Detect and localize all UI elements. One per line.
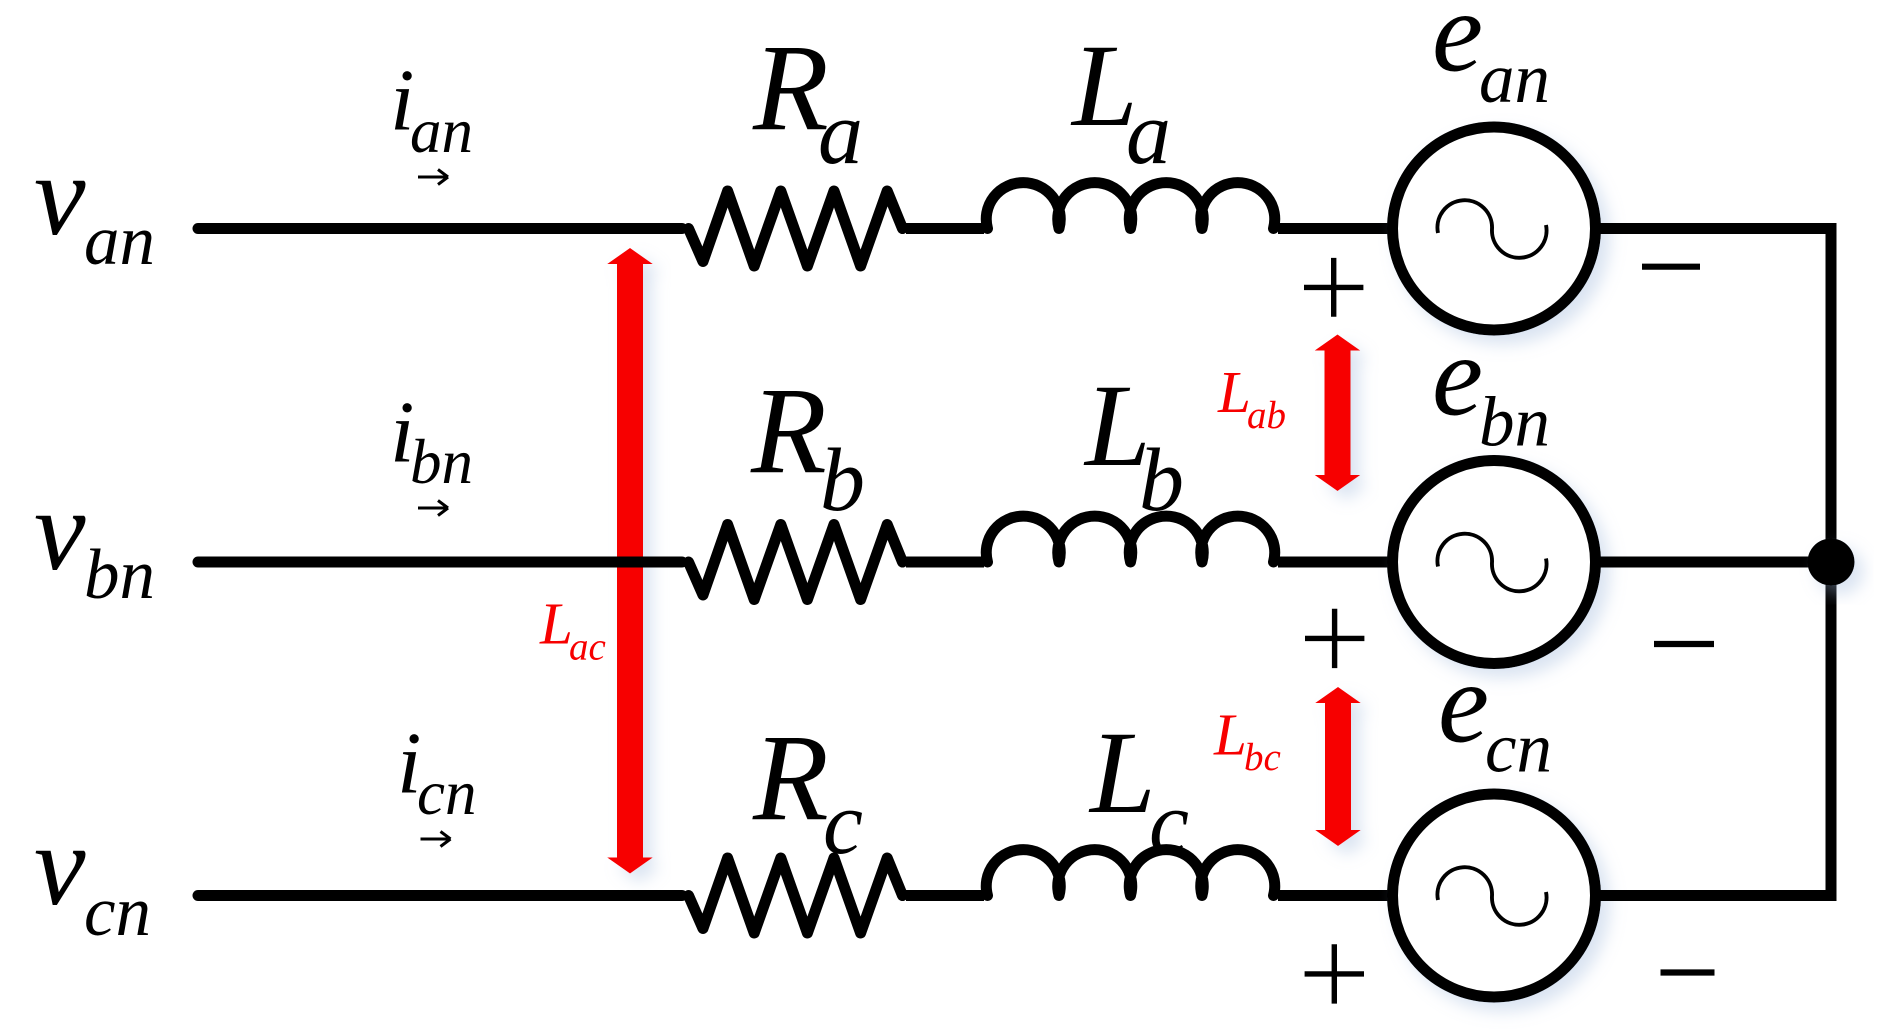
svg-text:b: b — [820, 431, 865, 530]
resistor R_b label — [750, 362, 865, 530]
minus sign phase b — [1654, 641, 1714, 647]
label L_ab — [1217, 359, 1286, 437]
current label i_bn — [390, 385, 473, 498]
mutual inductance arrow L_bc — [1315, 687, 1361, 846]
svg-text:a: a — [818, 84, 863, 183]
current label i_an — [390, 53, 473, 167]
svg-text:e: e — [1432, 0, 1483, 96]
svg-text:bn: bn — [1479, 384, 1550, 462]
resistor R_b — [689, 525, 903, 600]
svg-text:R: R — [750, 362, 827, 499]
source e_bn label — [1432, 312, 1550, 461]
junction node n — [1808, 539, 1855, 586]
label L_ac — [539, 591, 606, 669]
svg-text:v: v — [34, 467, 86, 595]
source e_an label — [1432, 0, 1550, 118]
wire v_an to resistor — [198, 223, 682, 234]
mutual inductance arrow L_ab — [1315, 335, 1361, 492]
svg-text:cn: cn — [417, 758, 476, 828]
wire resistor to inductor — [906, 557, 984, 568]
inductor L_b label — [1083, 360, 1184, 530]
inductor L_c — [986, 850, 1275, 896]
inductor L_a label — [1070, 20, 1171, 183]
resistor R_a — [689, 191, 903, 266]
svg-text:bc: bc — [1244, 736, 1281, 779]
svg-text:ab: ab — [1247, 394, 1286, 437]
node v_bn label — [34, 467, 155, 614]
svg-text:L: L — [539, 591, 573, 657]
label L_bc — [1213, 702, 1281, 779]
current label i_cn — [397, 716, 476, 829]
inductor L_b — [986, 516, 1275, 562]
svg-text:cn: cn — [1485, 710, 1552, 788]
wire inductor to source — [1278, 890, 1393, 901]
inductor L_a — [986, 183, 1275, 229]
plus sign phase c — [1305, 944, 1364, 1003]
AC source e_cn circle — [1393, 794, 1596, 997]
svg-text:v: v — [34, 802, 86, 930]
resistor R_c label — [752, 709, 863, 873]
AC source e_bn circle — [1393, 461, 1596, 664]
mutual inductance arrow L_ac — [607, 248, 653, 874]
resistor R_a label — [752, 19, 863, 183]
svg-text:L: L — [1088, 707, 1156, 838]
wire resistor to inductor — [906, 890, 984, 901]
wire inductor to source — [1278, 557, 1393, 568]
node v_an label — [34, 132, 155, 280]
svg-text:an: an — [410, 96, 473, 166]
svg-text:v: v — [34, 132, 86, 260]
wire phase b to rail — [1596, 557, 1832, 568]
current direction arrow (i_an) — [418, 170, 448, 185]
minus sign phase c — [1661, 969, 1715, 975]
svg-text:an: an — [84, 202, 155, 280]
svg-text:an: an — [1479, 40, 1550, 118]
resistor R_c — [689, 858, 903, 933]
svg-text:L: L — [1217, 359, 1251, 425]
svg-text:c: c — [823, 774, 863, 873]
svg-text:L: L — [1213, 702, 1247, 768]
svg-text:R: R — [752, 709, 829, 846]
svg-text:bn: bn — [410, 427, 473, 497]
source e_cn label — [1438, 639, 1552, 787]
wire inductor to source — [1278, 223, 1393, 234]
svg-text:bn: bn — [84, 536, 155, 614]
svg-text:cn: cn — [84, 873, 151, 951]
svg-text:ac: ac — [569, 626, 606, 669]
inductor L_c label — [1088, 707, 1189, 873]
current direction arrow (i_bn) — [418, 501, 448, 516]
svg-text:e: e — [1432, 312, 1483, 439]
wire v_bn to resistor — [198, 557, 682, 568]
minus sign phase a — [1642, 264, 1700, 270]
wire resistor to inductor — [906, 223, 984, 234]
svg-text:e: e — [1438, 639, 1489, 766]
plus sign phase b — [1305, 609, 1364, 668]
svg-text:c: c — [1149, 774, 1189, 873]
wire v_cn to resistor — [198, 890, 682, 901]
svg-text:b: b — [1139, 431, 1184, 530]
wire right rail (phase a top, vertical, phase c bottom) — [1596, 229, 1832, 896]
AC source e_an circle — [1393, 127, 1596, 330]
plus sign phase a — [1304, 258, 1363, 317]
node v_cn label — [34, 802, 151, 951]
svg-text:a: a — [1126, 84, 1171, 183]
current direction arrow (i_cn) — [421, 832, 451, 847]
